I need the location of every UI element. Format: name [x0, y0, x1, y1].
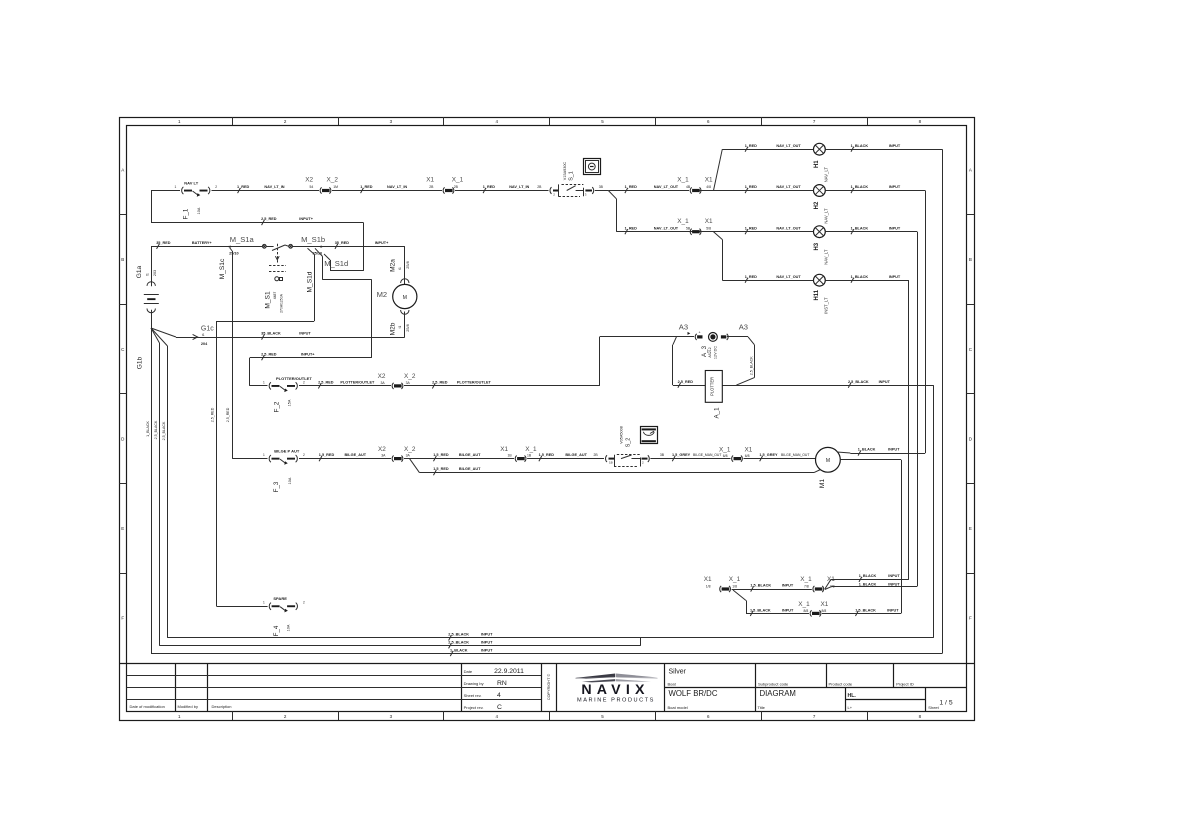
svg-text:Sheet: Sheet — [928, 705, 939, 710]
svg-text:X_2: X_2 — [327, 177, 339, 184]
svg-text:X1: X1 — [704, 576, 712, 583]
svg-text:A: A — [121, 168, 124, 173]
svg-text:2B: 2B — [594, 453, 599, 457]
svg-text:4487: 4487 — [273, 292, 277, 300]
svg-text:X1: X1 — [821, 601, 829, 608]
svg-text:INPUT: INPUT — [481, 641, 493, 645]
svg-text:NAV_LT_OUT: NAV_LT_OUT — [654, 185, 679, 189]
svg-text:M_S1d: M_S1d — [306, 271, 313, 292]
svg-text:NAV_LT: NAV_LT — [824, 167, 829, 183]
svg-text:2,5_BLACK: 2,5_BLACK — [848, 380, 869, 384]
svg-text:BILGE_AUT: BILGE_AUT — [459, 467, 481, 471]
svg-text:INPUT: INPUT — [888, 574, 900, 578]
svg-text:1,5_BLACK: 1,5_BLACK — [750, 608, 771, 612]
svg-text:PLOTTER/OUTLET: PLOTTER/OUTLET — [276, 376, 312, 381]
svg-text:204: 204 — [201, 342, 208, 346]
svg-text:MARINE PRODUCTS: MARINE PRODUCTS — [577, 698, 655, 704]
svg-text:S_1: S_1 — [569, 171, 575, 181]
svg-text:B: B — [969, 257, 972, 262]
svg-text:NAVIX: NAVIX — [581, 682, 649, 698]
svg-text:1,5_GREY: 1,5_GREY — [759, 453, 778, 457]
svg-text:2: 2 — [215, 185, 217, 189]
svg-text:PLOTTER/OUTLET: PLOTTER/OUTLET — [457, 380, 492, 384]
svg-text:1M: 1M — [333, 185, 338, 189]
svg-text:X1: X1 — [705, 177, 713, 184]
svg-text:2,5_RED: 2,5_RED — [226, 407, 230, 422]
svg-text:t1: t1 — [145, 273, 149, 276]
svg-text:3A: 3A — [381, 381, 386, 385]
svg-text:X_1: X_1 — [800, 576, 812, 583]
svg-text:M_S1: M_S1 — [264, 291, 271, 309]
svg-text:NAV_LT_OUT: NAV_LT_OUT — [776, 185, 801, 189]
svg-text:54: 54 — [310, 185, 314, 189]
svg-text:Description: Description — [212, 704, 232, 709]
svg-text:E: E — [121, 526, 124, 531]
svg-text:2,5_BLACK: 2,5_BLACK — [448, 641, 469, 645]
svg-text:X_1: X_1 — [452, 177, 464, 184]
svg-text:X_2: X_2 — [404, 446, 416, 453]
svg-text:F_2: F_2 — [274, 401, 281, 412]
svg-text:A_3: A_3 — [701, 345, 708, 357]
svg-text:1_BLACK: 1_BLACK — [146, 421, 150, 437]
svg-text:M2b: M2b — [389, 322, 396, 335]
svg-text:X_1: X_1 — [719, 447, 731, 454]
svg-text:INPUT: INPUT — [481, 633, 493, 637]
svg-text:3A: 3A — [381, 454, 386, 458]
svg-text:Subproduct code: Subproduct code — [758, 681, 789, 686]
svg-text:2B: 2B — [429, 185, 434, 189]
svg-text:25/8: 25/8 — [406, 324, 410, 331]
svg-text:INPUT: INPUT — [888, 582, 900, 586]
svg-text:Title: Title — [758, 705, 766, 710]
svg-text:1_BLACK: 1_BLACK — [859, 582, 877, 586]
svg-text:X2: X2 — [378, 446, 386, 453]
svg-text:t1: t1 — [398, 267, 402, 270]
svg-text:L+: L+ — [848, 705, 853, 710]
svg-text:M_S1c: M_S1c — [219, 258, 226, 279]
svg-text:2,5_BLACK: 2,5_BLACK — [162, 421, 166, 440]
svg-text:F: F — [121, 616, 124, 621]
svg-text:2B: 2B — [537, 185, 542, 189]
svg-text:10A: 10A — [288, 477, 292, 484]
svg-text:1_BLACK: 1_BLACK — [851, 275, 869, 279]
svg-text:1,5_BLACK: 1,5_BLACK — [855, 608, 876, 612]
svg-text:M2a: M2a — [389, 259, 396, 272]
svg-text:INPUT: INPUT — [782, 608, 794, 612]
svg-text:1,5_RED: 1,5_RED — [433, 467, 449, 471]
svg-text:X1: X1 — [426, 177, 434, 184]
svg-text:t1: t1 — [398, 325, 402, 328]
svg-text:1_RED: 1_RED — [745, 226, 757, 230]
svg-text:M_S1a: M_S1a — [230, 235, 255, 244]
svg-text:2,5_BLACK: 2,5_BLACK — [448, 633, 469, 637]
svg-text:1B: 1B — [527, 454, 532, 458]
svg-text:A3: A3 — [739, 323, 748, 332]
svg-text:1/8: 1/8 — [732, 585, 737, 589]
svg-text:BILGE P AUT: BILGE P AUT — [274, 449, 300, 454]
svg-text:M: M — [826, 458, 830, 464]
svg-text:35_RED: 35_RED — [156, 241, 171, 245]
svg-text:12V DC: 12V DC — [714, 346, 718, 360]
svg-text:1_BLACK: 1_BLACK — [851, 144, 869, 148]
svg-text:7/8: 7/8 — [804, 585, 809, 589]
svg-text:35_BLACK: 35_BLACK — [261, 332, 281, 336]
svg-text:35_RED: 35_RED — [335, 241, 350, 245]
svg-text:INPUT: INPUT — [887, 608, 899, 612]
svg-text:X2: X2 — [378, 373, 386, 380]
svg-text:3A: 3A — [406, 381, 411, 385]
svg-text:V15A930C: V15A930C — [563, 162, 567, 181]
svg-text:2,5_RED: 2,5_RED — [210, 407, 214, 422]
svg-text:NAV_LT_OUT: NAV_LT_OUT — [654, 226, 679, 230]
svg-text:H2: H2 — [814, 201, 820, 209]
svg-text:COPYRIGHT ©: COPYRIGHT © — [547, 674, 551, 701]
svg-text:NAV_LT_IN: NAV_LT_IN — [509, 185, 529, 189]
svg-text:BATTERY+: BATTERY+ — [192, 241, 213, 245]
svg-text:X_1: X_1 — [798, 601, 810, 608]
svg-text:NAV_LT_OUT: NAV_LT_OUT — [776, 275, 801, 279]
svg-text:2,5_RED: 2,5_RED — [432, 380, 448, 384]
svg-text:BILGE_AUT: BILGE_AUT — [459, 453, 481, 457]
svg-text:NAV_LT_IN: NAV_LT_IN — [387, 185, 407, 189]
svg-text:BILGE_AUT: BILGE_AUT — [345, 453, 367, 457]
svg-text:H11: H11 — [814, 289, 820, 300]
svg-text:INPUT: INPUT — [879, 380, 891, 384]
svg-text:RN: RN — [497, 680, 507, 687]
svg-text:10A: 10A — [287, 624, 291, 631]
svg-text:2,5_RED: 2,5_RED — [261, 217, 277, 221]
svg-text:270A/1250A: 270A/1250A — [280, 293, 284, 312]
svg-text:B: B — [121, 257, 124, 262]
svg-text:S_2: S_2 — [626, 438, 632, 448]
svg-text:1_RED: 1_RED — [237, 185, 249, 189]
svg-text:1_BLACK: 1_BLACK — [859, 574, 877, 578]
svg-text:NAV_LT_OUT: NAV_LT_OUT — [776, 226, 801, 230]
svg-text:2,5_BLACK: 2,5_BLACK — [749, 356, 753, 375]
svg-text:A: A — [969, 168, 972, 173]
svg-text:M: M — [403, 295, 407, 301]
svg-text:G1a: G1a — [136, 265, 143, 278]
svg-text:SPARE: SPARE — [273, 596, 287, 601]
svg-text:H3: H3 — [814, 242, 820, 250]
svg-text:4B: 4B — [686, 185, 691, 189]
svg-text:INPUT: INPUT — [889, 144, 901, 148]
svg-text:NAV_LT_IN: NAV_LT_IN — [264, 185, 284, 189]
svg-text:INPUT: INPUT — [889, 226, 901, 230]
svg-text:2,5_RED: 2,5_RED — [318, 380, 334, 384]
svg-text:15A: 15A — [287, 399, 291, 406]
svg-text:C: C — [497, 704, 502, 711]
svg-text:M_S1d: M_S1d — [324, 259, 348, 268]
svg-text:X_1: X_1 — [729, 576, 741, 583]
svg-text:2,5_RED: 2,5_RED — [261, 352, 277, 356]
svg-text:Project rev.: Project rev. — [464, 705, 484, 710]
svg-text:1_BLACK: 1_BLACK — [851, 185, 869, 189]
svg-text:1,5_RED: 1,5_RED — [433, 453, 449, 457]
svg-text:25/8: 25/8 — [406, 261, 410, 268]
svg-text:F_1: F_1 — [182, 208, 189, 219]
svg-text:WOLF BR/DC: WOLF BR/DC — [669, 689, 718, 698]
svg-text:3A: 3A — [406, 454, 411, 458]
svg-text:1: 1 — [263, 380, 265, 384]
svg-text:1,5_RED: 1,5_RED — [539, 453, 555, 457]
svg-text:M_S1b: M_S1b — [301, 235, 325, 244]
svg-text:INPUT: INPUT — [889, 185, 901, 189]
svg-text:PLOTTER: PLOTTER — [710, 377, 715, 396]
svg-text:1: 1 — [263, 601, 265, 605]
svg-text:Project ID: Project ID — [896, 681, 914, 686]
svg-text:1B: 1B — [508, 454, 513, 458]
svg-text:Boat: Boat — [668, 681, 677, 686]
svg-text:5/8: 5/8 — [706, 226, 711, 230]
svg-text:1,5_BLACK: 1,5_BLACK — [750, 584, 771, 588]
svg-text:5B: 5B — [686, 226, 691, 230]
svg-text:Boat model: Boat model — [668, 705, 688, 710]
svg-text:1/8: 1/8 — [706, 585, 711, 589]
svg-text:F_3: F_3 — [273, 481, 280, 492]
svg-text:INPUT: INPUT — [888, 448, 900, 452]
svg-text:BILGE_MAN_OUT: BILGE_MAN_OUT — [781, 453, 809, 457]
svg-text:X_2: X_2 — [404, 373, 416, 380]
svg-text:8/8: 8/8 — [804, 609, 809, 613]
svg-text:Product code: Product code — [829, 681, 853, 686]
svg-text:PLOTTER/OUTLET: PLOTTER/OUTLET — [340, 380, 375, 384]
svg-text:NAV_LT: NAV_LT — [824, 208, 829, 224]
svg-text:NAV_LT_OUT: NAV_LT_OUT — [776, 144, 801, 148]
svg-text:M2: M2 — [377, 290, 388, 299]
svg-text:X_1: X_1 — [677, 177, 689, 184]
svg-text:+: + — [699, 331, 701, 335]
svg-text:3B: 3B — [660, 453, 665, 457]
svg-text:1_RED: 1_RED — [745, 275, 757, 279]
svg-text:X1: X1 — [705, 218, 713, 225]
svg-text:1,5_GREY: 1,5_GREY — [672, 453, 691, 457]
svg-text:V05A5008: V05A5008 — [619, 426, 623, 444]
svg-text:X_1: X_1 — [525, 446, 537, 453]
svg-text:203: 203 — [153, 270, 157, 276]
svg-text:1_RED: 1_RED — [360, 185, 372, 189]
svg-text:INPUT+: INPUT+ — [301, 352, 315, 356]
svg-text:3B: 3B — [599, 185, 604, 189]
svg-text:E: E — [969, 526, 972, 531]
svg-text:INPUT: INPUT — [299, 332, 311, 336]
svg-text:1_RED: 1_RED — [745, 185, 757, 189]
svg-text:M1: M1 — [819, 479, 826, 488]
svg-text:BILGE_MAN_OUT: BILGE_MAN_OUT — [693, 453, 721, 457]
svg-text:4/8: 4/8 — [706, 185, 711, 189]
svg-text:1 / 5: 1 / 5 — [939, 700, 952, 707]
svg-text:1_BLACK: 1_BLACK — [450, 648, 468, 652]
svg-text:1: 1 — [263, 453, 265, 457]
svg-text:BILGE_AUT: BILGE_AUT — [565, 453, 587, 457]
svg-text:1_RED: 1_RED — [625, 226, 637, 230]
svg-text:H1: H1 — [814, 160, 820, 168]
svg-text:G1b: G1b — [137, 356, 144, 369]
svg-text:Date: Date — [464, 669, 473, 674]
svg-text:2: 2 — [303, 453, 305, 457]
svg-text:Silver: Silver — [669, 669, 687, 676]
svg-text:4: 4 — [497, 692, 501, 699]
svg-text:INPUT: INPUT — [481, 648, 493, 652]
svg-text:DIAGRAM: DIAGRAM — [760, 689, 796, 698]
svg-text:1_RED: 1_RED — [745, 144, 757, 148]
svg-text:Drawing by: Drawing by — [464, 681, 484, 686]
svg-text:2,5_BLACK: 2,5_BLACK — [154, 420, 158, 439]
svg-text:INPUT+: INPUT+ — [299, 217, 313, 221]
svg-text:A_1: A_1 — [713, 407, 720, 419]
svg-text:Modified by: Modified by — [178, 704, 198, 709]
svg-text:1_RED: 1_RED — [625, 185, 637, 189]
svg-text:1B: 1B — [609, 460, 613, 464]
svg-text:t1: t1 — [202, 333, 205, 337]
svg-text:Date of modification: Date of modification — [130, 704, 165, 709]
svg-text:1_BLACK: 1_BLACK — [858, 448, 876, 452]
svg-text:2,5_RED: 2,5_RED — [678, 380, 694, 384]
svg-text:22.9.2011: 22.9.2011 — [494, 668, 524, 675]
svg-text:Sheet rev.: Sheet rev. — [464, 693, 482, 698]
svg-text:X2: X2 — [305, 177, 313, 184]
svg-text:INPUT: INPUT — [889, 275, 901, 279]
svg-text:10A: 10A — [197, 207, 201, 214]
svg-text:6/8: 6/8 — [745, 454, 750, 458]
svg-text:F: F — [969, 616, 972, 621]
svg-text:G1c: G1c — [201, 325, 214, 332]
svg-text:A3: A3 — [679, 323, 688, 332]
svg-text:INPUT+: INPUT+ — [375, 241, 389, 245]
svg-text:X_1: X_1 — [677, 218, 689, 225]
svg-text:25/10: 25/10 — [229, 252, 239, 256]
svg-text:8/8: 8/8 — [822, 609, 827, 613]
svg-text:6/8: 6/8 — [723, 454, 728, 458]
svg-text:INPUT: INPUT — [782, 584, 794, 588]
svg-text:HL.: HL. — [848, 693, 857, 699]
svg-text:F_4: F_4 — [273, 625, 280, 636]
svg-text:X1: X1 — [745, 447, 753, 454]
svg-text:1_BLACK: 1_BLACK — [851, 226, 869, 230]
svg-text:2B: 2B — [454, 185, 459, 189]
svg-text:1: 1 — [175, 185, 177, 189]
svg-text:NAV_LT: NAV_LT — [824, 249, 829, 265]
svg-text:NAV LT: NAV LT — [184, 181, 198, 186]
svg-text:AS212: AS212 — [708, 347, 712, 357]
svg-text:1_RED: 1_RED — [483, 185, 495, 189]
svg-text:INST_LT: INST_LT — [824, 297, 829, 314]
svg-text:X1: X1 — [500, 446, 508, 453]
svg-text:1,5_RED: 1,5_RED — [319, 453, 335, 457]
svg-text:2: 2 — [303, 601, 305, 605]
